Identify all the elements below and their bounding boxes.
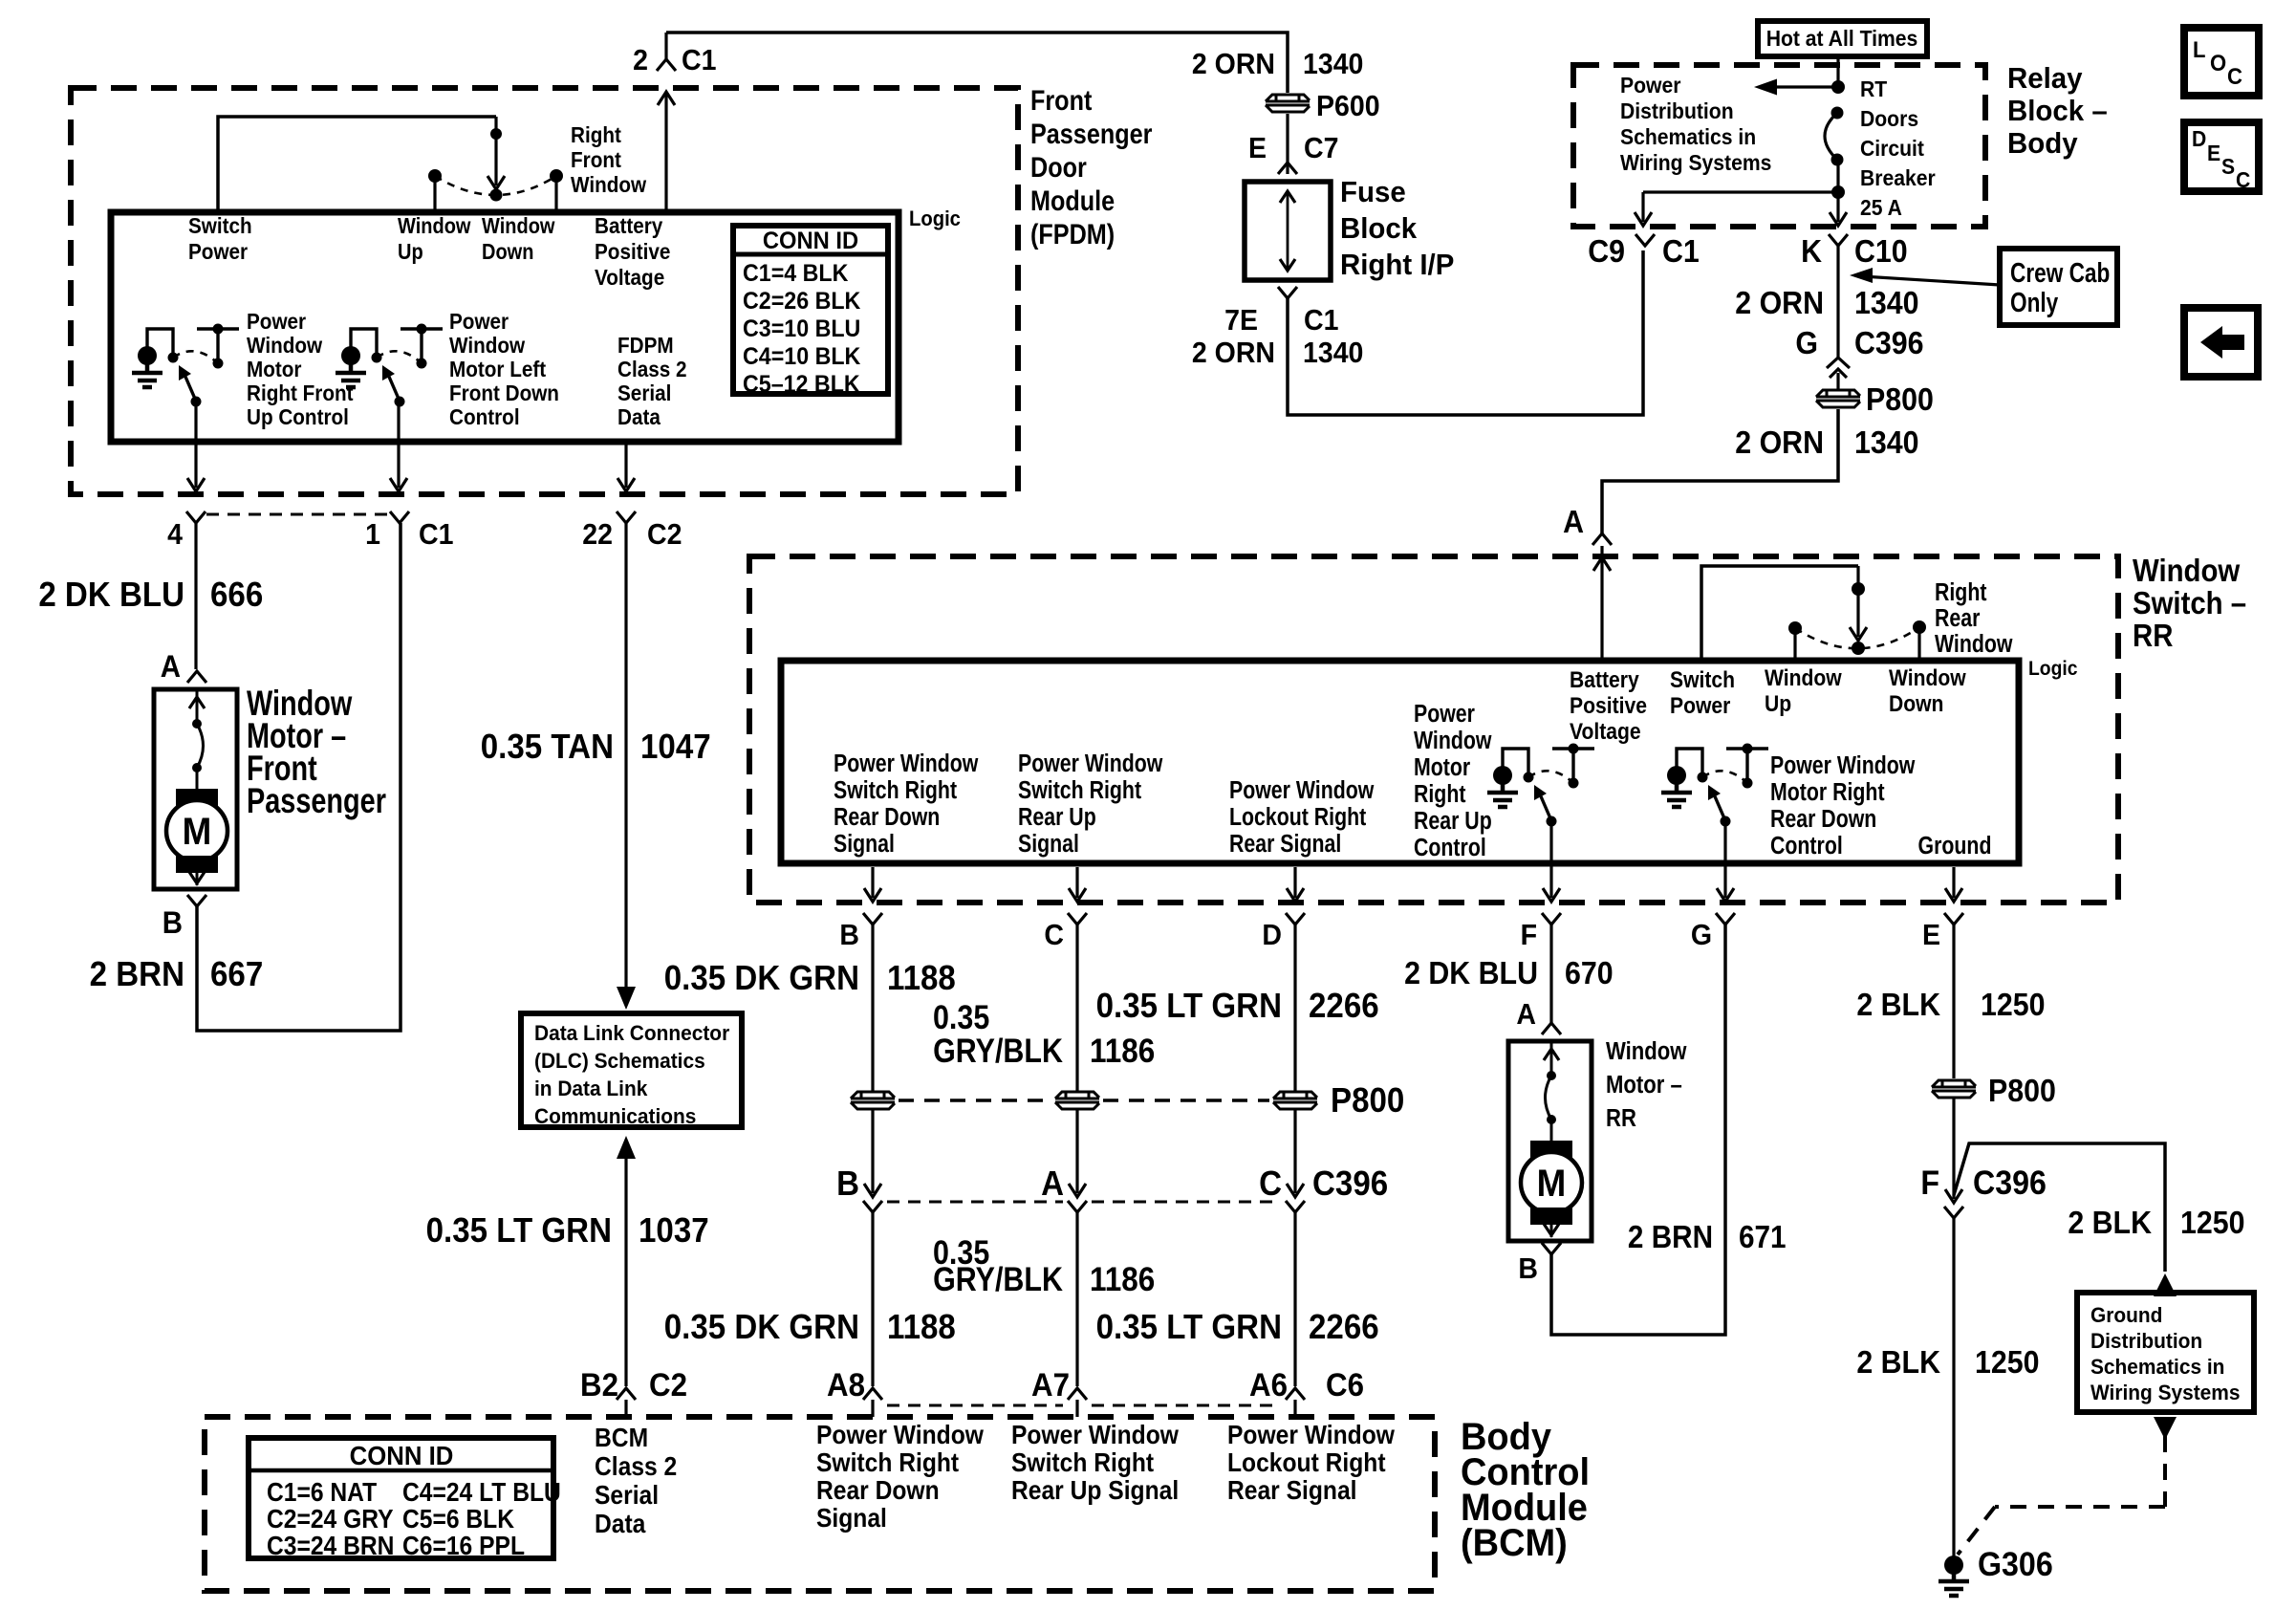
rocker common contact dot (RR) [1852,642,1865,655]
wire: RR pin B down to P800 [871,925,874,1091]
svg-text:C: C [1044,919,1064,951]
svg-text:Positive: Positive [1570,693,1647,719]
svg-text:2 ORN: 2 ORN [1192,337,1275,369]
svg-text:Right: Right [1414,780,1466,809]
svg-text:1037: 1037 [639,1212,709,1251]
junction dot (breaker output) [1831,185,1845,199]
svg-text:L: L [2193,36,2205,62]
arrow out of DLC note box [617,1136,636,1159]
svg-text:1250: 1250 [2180,1205,2245,1240]
svg-text:Up: Up [398,239,423,265]
svg-text:Window: Window [482,213,555,239]
wire: RR pin C down to P800 [1075,925,1078,1091]
svg-text:C: C [2227,63,2242,89]
note box: Data Link Connector (DLC) Schematics in Data Link Communications [521,1013,742,1127]
icon box LOC [2184,28,2259,96]
svg-text:C: C [1259,1165,1282,1204]
svg-text:Logic: Logic [909,207,961,230]
wire: RR motor B loop to pin G [1551,925,1725,1335]
svg-text:B: B [162,905,183,940]
wire: pin 4 to window motor A [194,523,197,669]
svg-text:Switch Right: Switch Right [816,1447,959,1478]
wire+arrow: RR terminal F [1549,821,1552,898]
svg-text:Power: Power [188,239,249,264]
arrow: relay block output at K [1836,192,1839,222]
wire: C396 pin C down to BCM A6 [1293,1212,1296,1386]
splice P600 [1266,95,1310,112]
svg-text:Class 2: Class 2 [617,357,686,381]
svg-text:Serial: Serial [595,1480,659,1511]
wire+arrow: RR terminal E ground [1952,867,1955,898]
svg-text:P800: P800 [1866,381,1934,417]
svg-text:Rear Down: Rear Down [816,1475,940,1506]
svg-text:Right: Right [571,122,622,147]
svg-text:Control: Control [1414,834,1486,862]
wire: K C10 down to C396 [1836,244,1839,358]
svg-text:RR: RR [1606,1104,1636,1132]
svg-text:670: 670 [1565,955,1614,990]
junction dot on rocker common [490,128,502,140]
connector fork: RR pin D [1286,913,1305,925]
wire: P600 to fuse block pin E C7 [1286,114,1289,174]
connector fork: front motor pin A [187,671,206,683]
CONN ID table (FPDM) [733,226,888,394]
svg-text:Window: Window [1606,1037,1687,1065]
switch: power window motor right front up control [138,346,157,365]
svg-text:M: M [1537,1163,1567,1206]
power feed box: Hot at All Times [1758,21,1927,56]
icon box back-arrow [2184,308,2258,377]
wire+arrow: RR terminal B [871,867,874,898]
svg-text:Window: Window [1414,727,1492,755]
svg-text:1250: 1250 [1981,987,2046,1022]
in-line connector G C396 (double chevron) [1827,358,1850,368]
ground G306 [1944,1556,1963,1575]
svg-text:1340: 1340 [1854,285,1919,320]
svg-text:Front Down: Front Down [449,381,559,405]
svg-text:C396: C396 [1973,1165,2047,1203]
svg-text:Right I/P: Right I/P [1340,249,1454,281]
arrow: RR rocker selector [1856,589,1859,637]
svg-text:C6: C6 [1326,1366,1364,1403]
splice P800 (orange feed) [1816,390,1860,407]
connector C396 pin B fork [863,1201,882,1212]
svg-text:FDPM: FDPM [617,333,674,358]
svg-text:2 BLK: 2 BLK [1856,1344,1940,1380]
svg-text:Motor: Motor [1414,753,1470,782]
wire: B splice to C396 pin B [871,1110,874,1193]
wire+arrow: RR terminal D [1293,867,1296,898]
switch: power window motor right rear up control [1493,766,1512,785]
svg-text:666: 666 [210,577,263,615]
svg-text:Switch Right: Switch Right [834,776,957,805]
wire: FPDM battery positive voltage up to pin 2 C1 [664,94,667,214]
svg-text:2 DK BLU: 2 DK BLU [38,577,184,615]
svg-text:RR: RR [2133,618,2173,653]
circuit breaker: RT Doors Circuit Breaker 25 A [1831,107,1844,120]
svg-text:Serial: Serial [617,381,671,405]
svg-text:Relay: Relay [2007,62,2083,95]
svg-text:F: F [1920,1165,1939,1203]
svg-text:Rear Down: Rear Down [834,803,940,832]
svg-text:2 BRN: 2 BRN [90,956,184,994]
svg-text:Distribution: Distribution [2090,1330,2202,1354]
svg-text:Doors: Doors [1860,106,1918,131]
module box: Window Switch - RR, dashed outline [749,556,2118,903]
terminal stub: RR window up contact [1793,630,1796,664]
svg-text:Power: Power [449,309,509,334]
svg-text:Module: Module [1030,185,1115,217]
svg-text:Down: Down [1889,691,1943,717]
svg-text:C2: C2 [647,518,682,551]
svg-text:2: 2 [633,44,648,76]
svg-text:Rear Up: Rear Up [1414,807,1492,836]
svg-text:GRY/BLK: GRY/BLK [933,1032,1063,1069]
svg-text:E: E [2207,141,2220,165]
connector fork: relay block pin C9 C1 [1635,234,1655,246]
svg-text:G306: G306 [1978,1547,2053,1584]
wire: hot feed into relay block [1836,56,1839,87]
svg-text:2266: 2266 [1309,988,1379,1026]
svg-text:2266: 2266 [1309,1309,1379,1347]
svg-text:0.35 LT GRN: 0.35 LT GRN [426,1212,612,1251]
svg-text:(DLC) Schematics: (DLC) Schematics [534,1050,705,1074]
svg-text:B: B [1518,1252,1538,1285]
icon box DESC [2184,122,2259,191]
arrow out of ground distribution note [2154,1417,2177,1440]
svg-text:C1: C1 [682,44,716,76]
dashed connector row at BCM pins [887,1404,1063,1407]
splice P800 (ground) [1932,1080,1976,1098]
svg-text:GRY/BLK: GRY/BLK [933,1260,1063,1297]
svg-text:G: G [1795,325,1818,360]
svg-text:C1=4 BLK: C1=4 BLK [743,260,849,287]
svg-text:0.35 LT GRN: 0.35 LT GRN [1096,1309,1282,1347]
switch: power window motor left front down control [341,346,360,365]
svg-text:7E: 7E [1224,304,1258,337]
wire+arrow: RR terminal G [1723,821,1726,898]
svg-text:Positive: Positive [595,239,670,264]
svg-text:Power Window: Power Window [1770,751,1916,780]
svg-text:Switch: Switch [1670,667,1735,693]
svg-text:1340: 1340 [1303,337,1363,369]
svg-text:Data Link Connector: Data Link Connector [534,1022,730,1046]
svg-text:Rear: Rear [1935,604,1980,633]
svg-text:M: M [183,811,212,854]
svg-text:Window: Window [1765,665,1842,691]
junction dot (RR rocker common) [1856,566,1859,589]
svg-text:Right Front: Right Front [247,381,354,405]
svg-text:Up: Up [1765,691,1791,717]
connector fork: RR pin E [1944,913,1963,925]
wire: RR pin D down to P800 [1293,925,1296,1091]
svg-text:Wiring Systems: Wiring Systems [1620,150,1771,175]
svg-text:RT: RT [1860,76,1888,101]
svg-text:Voltage: Voltage [1570,719,1641,745]
window motor - front passenger [154,689,237,889]
rocker common contact dot (FPDM) [490,189,503,202]
svg-text:1188: 1188 [887,1309,956,1347]
wire: C396 pin F down to G306 [1952,1218,1955,1558]
connector fork: BCM pin B2 [617,1388,636,1400]
svg-text:Rear Down: Rear Down [1770,805,1876,834]
svg-text:O: O [2210,50,2226,76]
svg-text:Breaker: Breaker [1860,165,1936,190]
connector fork: RR pin B [863,913,882,925]
svg-text:Window: Window [2133,553,2241,588]
svg-text:Distribution: Distribution [1620,98,1734,123]
svg-text:CONN ID: CONN ID [763,228,858,254]
svg-text:Crew Cab: Crew Cab [2010,256,2110,288]
svg-text:Front: Front [1030,84,1092,117]
arrow to power distribution schematics [1764,85,1838,88]
svg-text:Body: Body [2007,127,2078,160]
module box: Relay Block - Body, dashed outline [1573,65,1985,227]
splice P800 row - D branch [1273,1092,1317,1109]
svg-text:667: 667 [210,956,263,994]
svg-text:C6=16 PPL: C6=16 PPL [402,1531,525,1561]
svg-text:A6: A6 [1249,1366,1288,1403]
svg-text:1: 1 [365,518,380,551]
svg-text:2 BLK: 2 BLK [1856,987,1940,1022]
svg-text:Power: Power [1670,693,1731,719]
svg-text:Motor –: Motor – [1606,1071,1682,1099]
svg-text:0.35 DK GRN: 0.35 DK GRN [664,960,859,998]
svg-text:A: A [161,649,181,684]
svg-text:Signal: Signal [834,830,895,859]
svg-text:Data: Data [595,1509,646,1539]
arrow: FPDM output pin 4 [194,402,197,488]
connector fork: RR pin G [1716,913,1735,925]
svg-text:4: 4 [167,518,183,551]
dashed arc: right rear window rocker switch [1795,627,1919,648]
wire: D splice to C396 pin C [1293,1110,1296,1193]
connector C396 pin A fork [1068,1201,1087,1212]
svg-text:Ground: Ground [2090,1304,2162,1328]
svg-text:G: G [1691,919,1712,951]
svg-text:P600: P600 [1316,90,1380,122]
fuse element double arrow [1287,193,1289,269]
svg-text:Battery: Battery [1570,667,1639,693]
wire: battery feed from C1 pin 2 to P600 [666,33,1288,93]
svg-text:0.35 LT GRN: 0.35 LT GRN [1096,988,1282,1026]
svg-text:(FPDM): (FPDM) [1030,218,1115,250]
svg-text:Communications: Communications [534,1105,696,1129]
svg-text:1340: 1340 [1303,48,1363,80]
terminal stub: FPDM window up contact [433,178,436,214]
window motor - RR [1508,1041,1592,1241]
svg-text:671: 671 [1739,1220,1787,1255]
splice P800 row - C branch [1055,1092,1099,1109]
svg-text:Ground: Ground [1918,832,1992,860]
svg-text:Window: Window [247,333,323,358]
svg-text:A7: A7 [1031,1366,1070,1403]
svg-text:Circuit: Circuit [1860,136,1925,161]
svg-text:Only: Only [2010,286,2059,317]
svg-text:Power: Power [1620,73,1681,98]
wire: breaker output to C9 branch [1643,190,1838,193]
dashed arc: right front window rocker switch [435,176,556,195]
svg-text:C5–12 BLK: C5–12 BLK [743,371,860,398]
wire: C splice to C396 pin A [1075,1110,1078,1193]
svg-text:Power Window: Power Window [1018,750,1163,778]
svg-text:E: E [1922,919,1940,951]
svg-text:Hot at All Times: Hot at All Times [1766,26,1918,51]
svg-text:P800: P800 [1331,1082,1404,1120]
svg-text:A: A [1516,998,1536,1031]
svg-text:(BCM): (BCM) [1461,1522,1568,1564]
wire: RR pin E ground down [1952,925,1955,1078]
svg-text:22: 22 [582,518,613,551]
svg-text:Power: Power [1414,700,1475,729]
svg-text:0.35 TAN: 0.35 TAN [481,729,614,767]
fuse block box: Fuse Block Right I/P [1245,182,1331,280]
terminal stub: RR window down contact [1917,629,1920,664]
svg-text:D: D [1262,919,1282,951]
connector fork: fuse block pin E C7 [1278,163,1297,174]
wire: C396 pin B down to BCM A8 [871,1212,874,1386]
svg-text:Window: Window [1889,665,1966,691]
svg-text:D: D [2192,126,2206,151]
svg-text:C1: C1 [1662,233,1700,269]
svg-text:Front: Front [571,147,622,172]
svg-text:Window: Window [571,172,647,197]
svg-text:Window: Window [1935,630,2013,659]
svg-text:Motor Right: Motor Right [1770,778,1885,807]
svg-text:Power Window: Power Window [1229,776,1375,805]
connector fork: BCM pin A6 [1286,1388,1305,1400]
dashed route from ground note to G306 [2163,1436,2167,1507]
connector fork: FPDM pin 2 C1 (top) [657,59,676,71]
svg-text:C: C [2236,167,2250,192]
svg-text:BCM: BCM [595,1423,648,1453]
connector fork: relay block pin K C10 [1829,234,1848,246]
connector fork: RR pin C [1068,913,1087,925]
svg-text:C9: C9 [1588,233,1625,269]
svg-text:Power: Power [247,309,307,334]
wire+arrow: RR terminal C [1075,867,1078,898]
svg-text:2 ORN: 2 ORN [1192,48,1275,80]
svg-text:Motor: Motor [247,357,302,381]
svg-text:Power Window: Power Window [816,1420,984,1450]
svg-text:25 A: 25 A [1860,195,1902,220]
connector C396 pin C fork [1286,1201,1305,1212]
note box: Crew Cab Only [2000,249,2117,325]
connector fork: window switch pin A [1592,533,1612,545]
FPDM logic box [111,212,899,442]
RR logic box [781,661,2019,863]
dashed splice row P800 [899,1099,1051,1102]
connector fork: FPDM pin 1 [390,511,409,523]
svg-text:B: B [836,1165,859,1204]
svg-text:Power Window: Power Window [1227,1420,1395,1450]
svg-text:Motor Left: Motor Left [449,357,547,381]
connector fork: RR motor pin A [1542,1023,1561,1034]
svg-text:Signal: Signal [816,1503,887,1534]
arrow: rocker common selector [494,134,497,185]
svg-text:Control: Control [1770,832,1843,860]
svg-text:Rear Up: Rear Up [1018,803,1096,832]
svg-text:Rear Signal: Rear Signal [1227,1475,1356,1506]
svg-text:B2: B2 [580,1366,618,1403]
module box: Body Control Module (BCM), dashed outline [205,1417,1435,1591]
svg-text:C396: C396 [1312,1165,1388,1204]
svg-text:Power Window: Power Window [834,750,979,778]
wire: front motor B loop back to pin 1 [197,523,401,1031]
svg-text:Logic: Logic [2028,658,2077,680]
svg-text:C4=10 BLK: C4=10 BLK [743,343,861,370]
svg-text:Class 2: Class 2 [595,1451,677,1482]
svg-text:1340: 1340 [1854,424,1919,460]
terminal stub: FPDM window down contact [554,178,557,214]
svg-text:C2: C2 [649,1366,687,1403]
arrow: crew cab only pointer [1862,276,2000,285]
wire: P800 to window switch pin A [1602,409,1838,534]
svg-text:C7: C7 [1304,132,1338,164]
arrow: FPDM output pin 22 [624,442,627,488]
svg-text:Passenger: Passenger [247,782,386,821]
svg-text:1250: 1250 [1975,1344,2040,1380]
svg-text:P800: P800 [1988,1073,2056,1108]
svg-text:Rear Signal: Rear Signal [1229,830,1341,859]
svg-text:1047: 1047 [640,729,711,767]
svg-text:1186: 1186 [1090,1033,1155,1071]
dashed connector row C1 (pins 4-1) [206,513,389,516]
svg-text:Power Window: Power Window [1011,1420,1179,1450]
branch wire to ground distribution note [1954,1143,2165,1272]
wire: C396 pin A down to BCM A7 [1075,1212,1078,1386]
svg-text:Battery: Battery [595,213,663,238]
svg-text:E: E [1248,132,1267,164]
arrow into DLC note box [624,968,627,988]
svg-text:Switch –: Switch – [2133,585,2246,620]
svg-text:0.35 DK GRN: 0.35 DK GRN [664,1309,859,1347]
svg-text:Window: Window [449,333,526,358]
svg-text:B: B [839,919,859,951]
svg-text:Voltage: Voltage [595,265,664,290]
svg-text:0.35: 0.35 [933,998,989,1035]
svg-text:Block –: Block – [2007,95,2108,127]
connector fork: RR motor pin B [1542,1243,1561,1254]
svg-text:CONN ID: CONN ID [350,1441,454,1470]
splice P800 row - B branch [851,1092,895,1109]
svg-text:in Data Link: in Data Link [534,1077,647,1101]
svg-text:A8: A8 [827,1366,865,1403]
junction dot (hot feed) [1831,80,1845,94]
wire: FPDM pin 22 serial data down [624,523,627,968]
svg-text:Wiring Systems: Wiring Systems [2090,1382,2241,1405]
wire: battery positive voltage into RR switch [1600,546,1603,664]
svg-text:Data: Data [617,404,661,429]
svg-text:A: A [1563,504,1584,539]
connector fork: fuse block pin 7E C1 [1278,287,1297,298]
connector fork: front motor pin B [187,895,206,906]
svg-text:2 BRN: 2 BRN [1628,1220,1713,1255]
svg-text:C1: C1 [1304,304,1338,337]
switch: power window motor right rear down control [1667,766,1686,785]
svg-text:C2=26 BLK: C2=26 BLK [743,288,861,315]
svg-text:1188: 1188 [887,960,956,998]
svg-text:2 ORN: 2 ORN [1735,285,1824,320]
wire: RR switch power to rocker common [1701,566,1858,664]
svg-text:Fuse: Fuse [1340,176,1406,208]
wire: RR pin F down to motor A [1549,925,1552,1023]
svg-text:C10: C10 [1854,233,1908,269]
svg-text:Rear Up Signal: Rear Up Signal [1011,1475,1179,1506]
svg-text:Window: Window [398,213,471,239]
svg-text:S: S [2221,154,2235,179]
svg-text:Down: Down [482,239,533,265]
